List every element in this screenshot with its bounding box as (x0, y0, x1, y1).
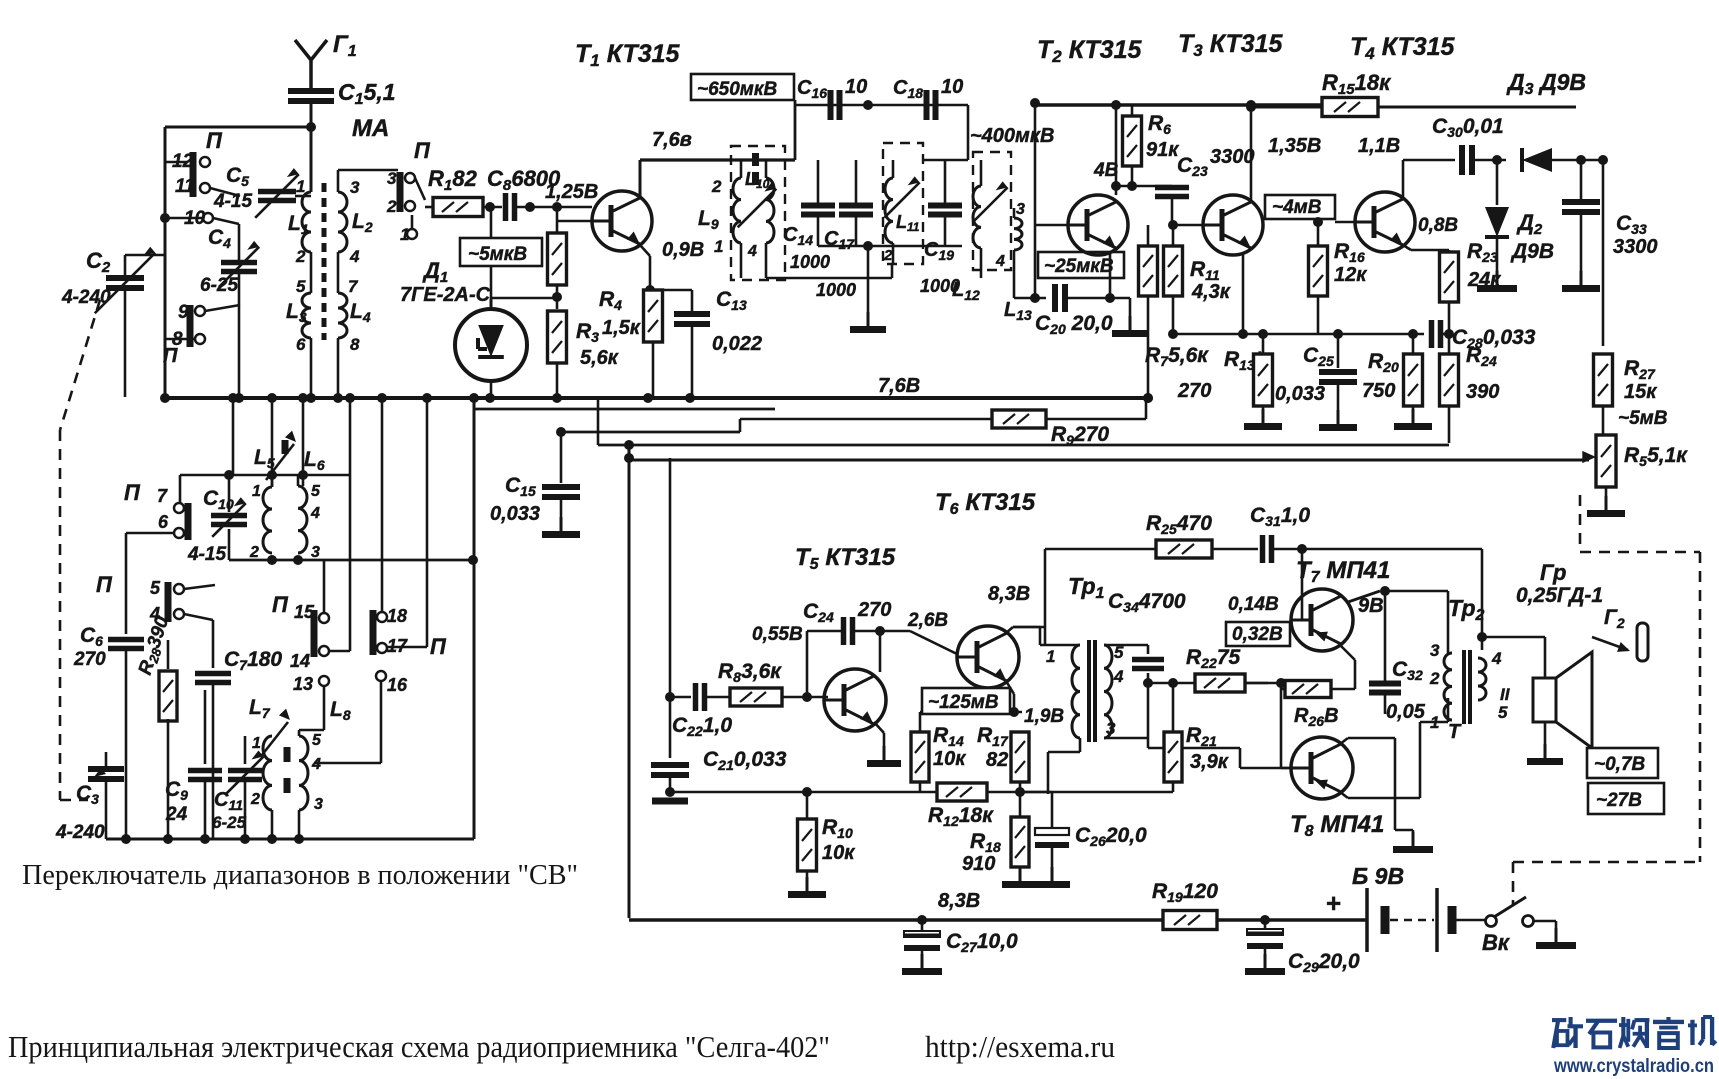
supply bus top (1035, 100, 1322, 110)
audio top wire R25 (1045, 512, 1258, 558)
svg-text:0,033: 0,033 (490, 503, 540, 525)
transistor T4 KT315 (1335, 33, 1456, 252)
trimmer C5 (213, 164, 311, 218)
svg-text:0,14В: 0,14В (1228, 594, 1279, 615)
capacitor C30 (1432, 115, 1506, 175)
svg-text:4: 4 (311, 756, 321, 773)
svg-text:С2: С2 (86, 248, 111, 276)
ground bus (160, 393, 1153, 403)
label 8,3V (988, 583, 1030, 605)
bottom-left bus (106, 834, 474, 844)
capacitor C29 electrolytic (1245, 920, 1360, 975)
coil L2 (338, 170, 398, 266)
svg-text:С26 20,0: С26 20,0 (1075, 824, 1147, 849)
resistor R19 (1152, 880, 1218, 930)
svg-text:1000: 1000 (816, 280, 856, 300)
box 5uV (460, 238, 542, 266)
svg-text:10к: 10к (822, 842, 855, 864)
svg-text:П: П (96, 572, 113, 597)
capacitor C18 (893, 76, 963, 120)
svg-text:С7 180: С7 180 (224, 648, 282, 673)
svg-text:4,3к: 4,3к (1191, 281, 1231, 303)
capacitor C24 (752, 599, 957, 702)
transistor T1 KT315 (557, 40, 681, 251)
wire T5 emitter (867, 722, 901, 764)
svg-text:1000: 1000 (790, 252, 830, 272)
svg-text:82: 82 (986, 749, 1008, 771)
wire T1 collector (640, 129, 731, 197)
audio inner wire (665, 458, 675, 702)
svg-text:R8 3,6к: R8 3,6к (718, 660, 782, 685)
svg-text:~0,7В: ~0,7В (1594, 754, 1646, 775)
wire R27 column (1602, 160, 1605, 346)
svg-text:1,25В: 1,25В (545, 181, 598, 203)
resistor R14 (911, 707, 1022, 792)
svg-text:3: 3 (1016, 201, 1025, 218)
svg-text:0,25ГД-1: 0,25ГД-1 (1516, 584, 1603, 607)
svg-text:~5мВ: ~5мВ (1618, 408, 1668, 429)
svg-text:Т7 МП41: Т7 МП41 (1296, 557, 1390, 586)
IF tank 1 dashed box (731, 146, 785, 280)
svg-text:L4: L4 (350, 300, 371, 325)
svg-text:Т8 МП41: Т8 МП41 (1290, 811, 1384, 840)
transistor T5 KT315 (795, 544, 896, 731)
svg-text:4: 4 (1113, 667, 1124, 686)
resistor R6 (1093, 105, 1179, 186)
coil L3 (286, 252, 311, 397)
resistor R15 (1246, 70, 1576, 117)
svg-text:П: П (163, 345, 178, 367)
transistor T6 KT315 (935, 489, 1036, 688)
caption url (925, 1029, 1115, 1064)
wire T2 collector (1115, 105, 1118, 195)
svg-text:6-25: 6-25 (212, 813, 247, 832)
transistor T3 KT315 (1178, 30, 1284, 255)
svg-text:5,6к: 5,6к (580, 347, 619, 369)
coil L8 (299, 698, 381, 839)
trimmer C11 (212, 736, 263, 839)
svg-text:1: 1 (296, 177, 305, 196)
svg-text:Д9В: Д9В (1510, 240, 1554, 263)
core marks L7L8 (284, 747, 291, 793)
svg-text:24к: 24к (1467, 269, 1501, 291)
svg-text:~5мкВ: ~5мкВ (468, 244, 527, 265)
svg-text:С9: С9 (165, 778, 188, 803)
svg-text:R23: R23 (1467, 240, 1498, 265)
svg-text:2: 2 (249, 544, 259, 561)
label 0,9V (662, 239, 704, 261)
capacitor C17 (816, 160, 873, 300)
svg-text:Гр: Гр (1540, 560, 1566, 585)
svg-text:Тр1: Тр1 (1068, 573, 1105, 602)
coil L6 (298, 448, 325, 561)
audio box left edge (624, 444, 634, 918)
svg-text:L7: L7 (249, 696, 271, 721)
svg-text:2: 2 (386, 197, 397, 216)
svg-text:С28 0,033: С28 0,033 (1452, 326, 1536, 351)
capacitor C31 (1250, 504, 1487, 642)
svg-text:С25: С25 (1303, 344, 1334, 369)
svg-text:R27: R27 (1624, 357, 1656, 382)
svg-text:2: 2 (1429, 669, 1440, 688)
resistor R12 (665, 783, 1025, 829)
svg-text:МА: МА (352, 115, 389, 142)
capacitor C19 (920, 160, 962, 296)
svg-text:Т6 КТ315: Т6 КТ315 (935, 489, 1036, 518)
transformer Tr1 core (1089, 640, 1095, 742)
resistor R22 (1143, 646, 1281, 692)
svg-text:2,6В: 2,6В (907, 610, 948, 631)
svg-text:С16: С16 (797, 77, 827, 101)
svg-text:2: 2 (883, 247, 893, 264)
wire Tr2 to speaker (1482, 637, 1545, 650)
svg-text:R21: R21 (1186, 724, 1217, 749)
capacitor C9 (165, 690, 222, 839)
resistor R26 (1276, 678, 1355, 768)
svg-text:1,35В: 1,35В (1268, 135, 1321, 157)
svg-text:1: 1 (1430, 713, 1439, 732)
svg-text:С17: С17 (824, 228, 855, 252)
resistor R20 (1362, 334, 1432, 427)
switch П contacts 12 11 (165, 128, 240, 197)
svg-text:R26 В: R26 В (1294, 705, 1339, 729)
svg-text:R6: R6 (1148, 112, 1171, 137)
svg-text:R3: R3 (576, 320, 599, 345)
tank lower rail 246 (818, 241, 962, 330)
svg-text:R25 470: R25 470 (1146, 512, 1212, 537)
diode D2 (1477, 155, 1554, 289)
svg-text:С15: С15 (505, 474, 536, 499)
svg-text:С30 0,01: С30 0,01 (1432, 115, 1504, 140)
resistor R21 (1020, 678, 1229, 792)
resistor R1 (425, 166, 502, 217)
svg-text:II: II (1500, 685, 1511, 704)
coil L7 (249, 696, 290, 839)
svg-text:R16: R16 (1334, 240, 1365, 265)
capacitor C21 (651, 697, 787, 801)
svg-text:3: 3 (1106, 719, 1116, 738)
label 1,35V (1268, 135, 1321, 157)
svg-text:Д1: Д1 (422, 258, 448, 286)
wire T6 collector (1006, 549, 1045, 645)
wire T3 emitter (1238, 252, 1248, 339)
svg-text:~125мВ: ~125мВ (928, 692, 999, 713)
wire T7 collector (1348, 586, 1448, 653)
svg-text:91к: 91к (1146, 139, 1179, 161)
svg-text:Вк: Вк (1482, 930, 1511, 955)
svg-text:16: 16 (387, 675, 408, 695)
switch П contacts 5 4 (96, 572, 215, 624)
svg-text:R19 120: R19 120 (1152, 880, 1218, 905)
wire T2 emitter (1105, 252, 1148, 334)
wire T6 emitter (1006, 681, 1014, 712)
svg-text:3: 3 (350, 178, 360, 197)
resistor R23 (1440, 240, 1502, 339)
wire T8 emitter (1340, 738, 1433, 850)
wire T7 emitter (1340, 645, 1355, 689)
svg-text:+: + (1326, 888, 1341, 918)
svg-text:15к: 15к (1624, 381, 1657, 403)
svg-text:R10: R10 (822, 816, 853, 841)
switch П contacts 7 6 (124, 480, 188, 540)
svg-text:С21 0,033: С21 0,033 (703, 748, 787, 773)
svg-text:R7 5,6к: R7 5,6к (1145, 344, 1209, 369)
resistor R13 (1177, 329, 1282, 427)
transformer Tr1 primary (1013, 573, 1105, 794)
svg-text:7,6В: 7,6В (878, 375, 920, 397)
svg-text:4В: 4В (1093, 160, 1119, 181)
wire x474 (469, 393, 479, 839)
svg-text:5: 5 (1498, 703, 1508, 722)
svg-text:18: 18 (387, 606, 407, 626)
svg-text:С23: С23 (1177, 154, 1208, 179)
svg-text:8,3В: 8,3В (938, 890, 980, 912)
wire T2 base column (1030, 98, 1040, 303)
AGC wire R9 (561, 398, 1146, 448)
svg-text:С5: С5 (226, 164, 249, 189)
svg-text:~400мкВ: ~400мкВ (970, 125, 1054, 147)
core mark L5L6 (282, 440, 289, 454)
svg-text:2: 2 (711, 177, 722, 196)
capacitor C22 (629, 683, 732, 739)
antenna Г1 (295, 31, 357, 90)
box 0,32V (1226, 622, 1290, 646)
svg-text:С13: С13 (716, 288, 747, 313)
resistor R18 (962, 792, 1038, 885)
box 25uV (1038, 252, 1124, 278)
svg-text:С31 1,0: С31 1,0 (1250, 504, 1310, 529)
svg-text:R4: R4 (599, 288, 622, 313)
svg-text:4: 4 (349, 247, 360, 266)
trimmer C4 (200, 224, 259, 397)
svg-text:3: 3 (314, 796, 323, 813)
trimmer C10 (187, 475, 247, 565)
transformer Tr2 (1429, 595, 1511, 732)
svg-text:L6: L6 (304, 448, 325, 473)
svg-text:6: 6 (158, 512, 169, 532)
svg-text:R22 75: R22 75 (1186, 646, 1241, 671)
svg-text:8,3В: 8,3В (988, 583, 1030, 605)
svg-text:П: П (206, 128, 223, 153)
svg-text:С24: С24 (803, 600, 834, 625)
svg-text:0,022: 0,022 (712, 333, 762, 355)
resistor R27 (1594, 354, 1668, 434)
bus verticals (228, 393, 432, 651)
capacitor C15 (490, 427, 580, 535)
resistor R11 (1164, 220, 1231, 339)
svg-text:910: 910 (962, 853, 995, 875)
svg-text:0,05: 0,05 (1386, 701, 1426, 723)
svg-text:4: 4 (1491, 649, 1502, 668)
svg-text:390: 390 (1466, 381, 1499, 403)
svg-text:1: 1 (252, 735, 261, 752)
capacitor C25 (1275, 334, 1357, 428)
capacitor C27 electrolytic (902, 920, 1018, 972)
svg-text:3,9к: 3,9к (1190, 751, 1229, 773)
svg-text:L9: L9 (698, 207, 719, 232)
capacitor C7 (195, 620, 282, 839)
svg-text:П: П (414, 138, 431, 163)
resistor R24 (1440, 344, 1500, 406)
coil L5 (249, 431, 296, 561)
watermark crystalradio (1552, 1017, 1716, 1077)
wire T4 collector (1403, 160, 1458, 236)
svg-text:Т5 КТ315: Т5 КТ315 (795, 544, 896, 573)
svg-text:С19: С19 (924, 239, 954, 263)
svg-text:L11: L11 (896, 212, 920, 234)
svg-text:http://esxema.ru: http://esxema.ru (925, 1029, 1115, 1064)
svg-text:С6: С6 (80, 624, 103, 649)
dashed AGC link (1513, 495, 1700, 862)
variable capacitor C2 (61, 247, 165, 397)
svg-text:0,32В: 0,32В (1232, 624, 1283, 645)
svg-text:13: 13 (293, 674, 313, 694)
switch П contacts 15 14 13 (272, 560, 350, 730)
svg-text:2: 2 (295, 247, 306, 266)
svg-text:~27В: ~27В (1596, 790, 1642, 811)
resistor R3 (548, 311, 619, 397)
svg-text:270: 270 (73, 649, 106, 670)
wire T8 collector (1340, 698, 1448, 798)
label 1,25V (545, 181, 598, 203)
mech link dashed (60, 300, 100, 800)
svg-text:0,033: 0,033 (1275, 383, 1325, 405)
svg-text:Г2: Г2 (1604, 606, 1625, 631)
resistor R17 (977, 724, 1029, 792)
svg-text:1,9В: 1,9В (1024, 706, 1064, 727)
transistor T2 KT315 (1035, 36, 1143, 255)
variable capacitor C3 (55, 752, 124, 843)
svg-text:С32: С32 (1392, 658, 1423, 683)
svg-text:Принципиальная электрическая с: Принципиальная электрическая схема радио… (8, 1029, 830, 1064)
potentiometer R5 (1582, 435, 1688, 514)
ferrite core dashed (322, 183, 327, 340)
IF tank 3 dashed box (973, 152, 1011, 270)
svg-text:2: 2 (250, 791, 260, 808)
svg-text:0,55В: 0,55В (752, 624, 803, 645)
resistor R4 (599, 288, 663, 397)
coil L1 (288, 127, 311, 266)
switch П contacts 18 17 16 (373, 606, 447, 763)
svg-text:С34 4700: С34 4700 (1108, 590, 1186, 615)
capacitor C23 (1111, 146, 1255, 225)
svg-text:4-15: 4-15 (213, 191, 252, 212)
svg-text:Переключатель диапазонов в пол: Переключатель диапазонов в положении "СВ… (22, 860, 578, 891)
svg-text:L13: L13 (1004, 299, 1032, 323)
svg-text:С4: С4 (208, 226, 231, 251)
svg-text:750: 750 (1362, 380, 1395, 402)
svg-text:4: 4 (310, 505, 320, 522)
resistor R7 (1139, 225, 1210, 403)
capacitor C34 (1108, 590, 1186, 738)
IF tank 2 dashed box (883, 143, 923, 264)
coil L11 in tank2 (883, 160, 920, 264)
svg-text:5: 5 (312, 732, 322, 749)
svg-text:Тр2: Тр2 (1448, 595, 1485, 624)
svg-text:4-240: 4-240 (55, 822, 105, 843)
speaker Gr (1516, 560, 1603, 762)
resistor R2 (548, 207, 567, 309)
svg-text:3300: 3300 (1613, 236, 1658, 258)
coil L4 (338, 252, 371, 397)
svg-text:С18: С18 (893, 77, 923, 101)
svg-text:Д3 Д9В: Д3 Д9В (1506, 69, 1586, 98)
svg-text:R5 5,1к: R5 5,1к (1624, 444, 1688, 469)
svg-text:270: 270 (1177, 380, 1211, 402)
svg-text:4-15: 4-15 (187, 544, 226, 565)
svg-text:R17: R17 (977, 724, 1009, 749)
svg-text:~650мкВ: ~650мкВ (697, 79, 777, 100)
capacitor C13 (650, 288, 762, 397)
battery B 9V (1326, 863, 1485, 952)
long bus y445 (598, 398, 1449, 450)
dashed battery link (1513, 862, 1522, 905)
detector AGC line (629, 459, 1589, 462)
svg-text:7: 7 (157, 486, 168, 506)
capacitor C20 (1014, 284, 1113, 337)
svg-text:R20: R20 (1368, 350, 1399, 375)
coupling line (795, 100, 968, 160)
diode D1 (400, 207, 557, 397)
svg-text:7ГЕ-2А-С: 7ГЕ-2А-С (400, 284, 491, 306)
resistor R8 (706, 660, 828, 706)
wire T3 collector (1250, 105, 1253, 201)
label MA (352, 115, 389, 142)
svg-text:4: 4 (995, 253, 1005, 270)
svg-text:Т: Т (1448, 721, 1462, 743)
wire mid rail (1173, 329, 1424, 339)
wire left column (160, 127, 170, 397)
socket G2 (1592, 606, 1648, 661)
wire antenna bus (165, 122, 316, 132)
resistor R28 (135, 614, 177, 839)
switch Vk (1482, 897, 1576, 955)
box 27V (1588, 783, 1664, 814)
svg-text:~4мВ: ~4мВ (1272, 197, 1322, 218)
resistor R10 (788, 792, 855, 895)
svg-text:L12: L12 (952, 279, 980, 303)
label T (1448, 721, 1462, 743)
wire T1 emitter (640, 245, 655, 295)
tank lower rail 278 (766, 264, 892, 278)
coil L10 (745, 160, 774, 278)
svg-text:5: 5 (296, 277, 306, 296)
svg-text:6: 6 (296, 335, 306, 354)
svg-text:С29 20,0: С29 20,0 (1288, 950, 1360, 975)
svg-text:С14: С14 (783, 224, 813, 248)
svg-text:1: 1 (1046, 647, 1055, 666)
svg-text:0,8В: 0,8В (1418, 215, 1458, 236)
switch П contacts 3 2 1 (386, 138, 431, 244)
svg-text:5: 5 (150, 578, 161, 598)
svg-text:L8: L8 (330, 698, 351, 723)
svg-text:~25мкВ: ~25мкВ (1044, 256, 1114, 277)
svg-text:Т3 КТ315: Т3 КТ315 (1178, 30, 1284, 60)
box 125mV (922, 688, 1010, 714)
svg-text:270: 270 (857, 599, 891, 621)
svg-text:Т4 КТ315: Т4 КТ315 (1350, 33, 1456, 63)
svg-text:R15 18к: R15 18к (1322, 70, 1392, 98)
svg-text:Б 9В: Б 9В (1352, 863, 1404, 889)
svg-text:7: 7 (348, 277, 359, 296)
tank1 tuning arrow (738, 153, 777, 227)
svg-text:R12 18к: R12 18к (928, 804, 994, 829)
svg-text:С3: С3 (76, 782, 99, 807)
svg-text:1,1В: 1,1В (1358, 135, 1400, 157)
switch П contacts 9 8 (163, 302, 240, 367)
svg-text:R14: R14 (933, 724, 964, 749)
svg-text:R11: R11 (1190, 258, 1220, 283)
